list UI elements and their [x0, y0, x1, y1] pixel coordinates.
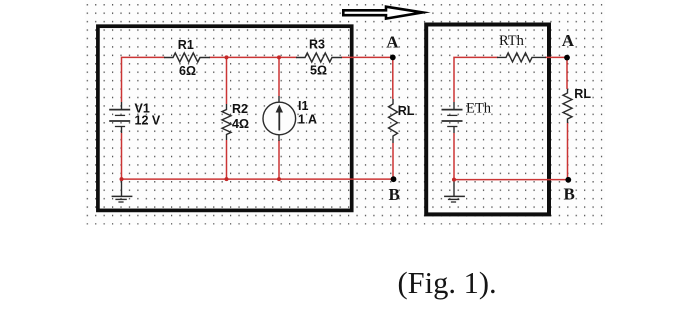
svg-text:RL: RL: [574, 87, 591, 101]
ground (right circuit): [444, 180, 465, 202]
junction dot (ETh bottom): [452, 178, 456, 182]
svg-text:RL: RL: [398, 104, 415, 118]
wire: left circuit bottom rail: [122, 133, 394, 179]
svg-text:12 V: 12 V: [135, 114, 161, 128]
svg-text:I1: I1: [298, 99, 308, 113]
resistor R3: [296, 53, 342, 62]
wire: R2 branch: [226, 57, 228, 179]
svg-text:B: B: [564, 185, 575, 204]
ground (left circuit): [112, 179, 133, 202]
junction dot (I1 top): [277, 55, 281, 59]
junction dot (ground left): [120, 177, 124, 181]
resistor RL (right circuit): [563, 89, 572, 123]
resistor RTh: [497, 53, 546, 62]
current source I1: [263, 96, 296, 141]
resistor R1: [164, 53, 210, 62]
battery V1: [109, 102, 130, 133]
node A (right circuit): [564, 55, 570, 61]
svg-text:R3: R3: [309, 38, 325, 52]
svg-text:4Ω: 4Ω: [232, 117, 249, 131]
svg-text:5Ω: 5Ω: [310, 64, 327, 78]
svg-text:A: A: [386, 33, 399, 52]
wire: RL branch (right circuit): [566, 57, 569, 179]
svg-text:RTh: RTh: [499, 33, 525, 49]
node A (left circuit): [390, 55, 396, 61]
junction dot (I1 bottom): [277, 177, 281, 181]
wire: RL branch (left circuit): [392, 57, 394, 179]
svg-text:R2: R2: [232, 102, 248, 116]
node B (right circuit): [565, 177, 571, 183]
wire: right circuit bottom rail: [454, 133, 568, 180]
right circuit box: [426, 25, 549, 215]
left circuit box: [98, 26, 352, 210]
svg-text:ETh: ETh: [466, 100, 492, 116]
grid background (decorative): [85, 0, 605, 225]
svg-text:(Fig. 1).: (Fig. 1).: [398, 266, 497, 300]
svg-text:6Ω: 6Ω: [179, 64, 196, 78]
svg-text:R1: R1: [178, 38, 194, 52]
svg-text:B: B: [389, 185, 400, 204]
wire: I1 branch: [278, 57, 280, 179]
junction dot (R2 top): [225, 55, 229, 59]
battery ETh: [442, 102, 463, 133]
resistor R2: [222, 104, 231, 140]
resistor RL (left circuit): [389, 99, 398, 143]
wire: left circuit top rail: [122, 57, 393, 102]
junction dot (R2 bottom): [225, 177, 229, 181]
arrow (transformation arrow): [343, 7, 422, 19]
wire: right circuit top rail: [454, 57, 567, 102]
svg-text:1 A: 1 A: [298, 113, 317, 127]
svg-text:A: A: [562, 31, 575, 50]
node B (left circuit): [391, 176, 397, 182]
